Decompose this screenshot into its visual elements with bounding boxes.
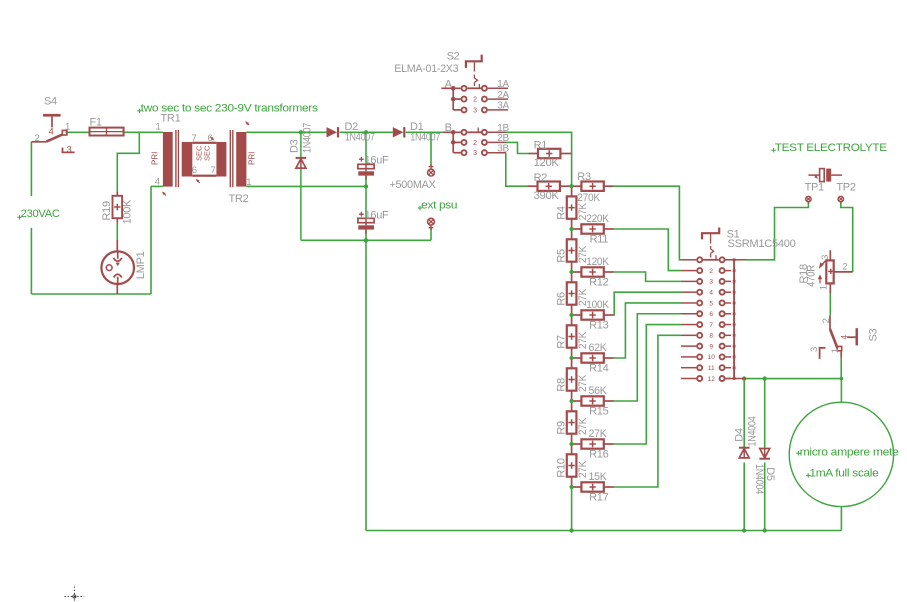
wire: branch down to R19 <box>117 132 139 191</box>
svg-text:2: 2 <box>35 133 40 144</box>
junction chain row <box>569 399 573 403</box>
S1 contact row 10 <box>697 354 702 359</box>
svg-text:R14: R14 <box>589 363 608 375</box>
junction chain bottom <box>569 528 573 532</box>
wire: R15 up to S1 row6 <box>614 314 681 401</box>
wire: psu gnd rail <box>301 239 431 241</box>
wire: riser from bottom-left rail to TR1 pin 4 <box>150 186 152 294</box>
junction D4 top <box>742 376 746 380</box>
diode D2 <box>327 127 338 137</box>
net label 230VAC <box>17 215 21 219</box>
sheet origin cross <box>65 587 85 602</box>
S1 contact row 12 <box>697 376 702 381</box>
wire: gnd drop to bottom rail <box>365 240 367 530</box>
S1 contact row 7 <box>697 322 702 327</box>
wire: cap2 bottom lead <box>365 230 367 241</box>
svg-text:12: 12 <box>708 376 716 383</box>
wire: long bottom rail <box>366 530 841 532</box>
svg-text:3: 3 <box>473 107 477 114</box>
resistor R6 27K <box>567 282 577 304</box>
svg-text:3B: 3B <box>497 143 509 154</box>
svg-text:LMP1: LMP1 <box>135 251 147 279</box>
TR2 core lines <box>229 130 231 187</box>
svg-text:SEC: SEC <box>203 145 212 161</box>
svg-text:R13: R13 <box>589 320 608 332</box>
svg-text:R10: R10 <box>556 458 568 477</box>
wire: 2B to R1 left lead <box>506 142 529 153</box>
S1 contact row 1 <box>697 257 702 262</box>
S2 contact row 2A <box>462 97 467 102</box>
svg-text:R3: R3 <box>577 171 591 183</box>
svg-text:6: 6 <box>709 311 713 318</box>
S2 group A pin line <box>441 87 461 89</box>
resistor R13 100K <box>581 310 603 319</box>
resistor R7 27K <box>567 325 577 347</box>
wire: TR2 pin1 to cap mid junction <box>246 185 366 187</box>
wire: left rail from S4 pin2 down (upper part) <box>30 142 32 196</box>
svg-text:27K: 27K <box>577 245 589 263</box>
svg-text:ext psu: ext psu <box>421 199 457 211</box>
svg-text:R4: R4 <box>556 206 568 220</box>
wire: TP2 down to R18 wiper <box>841 203 853 272</box>
S1 contact row 9 <box>697 344 702 349</box>
svg-text:220K: 220K <box>586 213 609 225</box>
svg-text:B: B <box>445 122 452 134</box>
svg-text:R6: R6 <box>556 292 568 306</box>
svg-text:D5: D5 <box>764 467 776 481</box>
wire: D3 bottom lead down to psu gnd rail <box>300 168 302 240</box>
svg-text:D3: D3 <box>288 139 300 153</box>
wire: D3 top lead <box>300 132 302 158</box>
svg-text:9: 9 <box>709 343 713 350</box>
S1 contact row 4 <box>697 290 702 295</box>
wire: LMP1 bottom pin <box>116 284 118 294</box>
svg-text:5: 5 <box>709 300 713 307</box>
svg-text:2A: 2A <box>497 90 509 101</box>
svg-text:R9: R9 <box>556 421 568 435</box>
svg-text:8: 8 <box>709 333 713 340</box>
wire: D4 branch <box>743 379 745 449</box>
resistor R9 27K <box>567 411 577 433</box>
S4 pin 3 stub <box>63 148 75 153</box>
TR1 secondary coil <box>182 142 193 177</box>
S2 contact row 3B <box>462 150 467 155</box>
lamp LMP1 <box>101 251 134 284</box>
wire: ext psu stub <box>430 228 432 241</box>
svg-text:27K: 27K <box>577 331 589 349</box>
svg-text:SSRM1C5400: SSRM1C5400 <box>728 238 796 250</box>
svg-text:1N4007: 1N4007 <box>345 132 375 144</box>
S1 contact row 8 <box>697 333 702 338</box>
S1 row12 right pin line <box>725 377 746 379</box>
svg-text:R2: R2 <box>534 172 548 184</box>
wire: S1 row1 to TP1 <box>746 203 808 260</box>
junction chain row <box>569 270 573 274</box>
svg-text:F1: F1 <box>90 117 102 129</box>
S2 B row1 bridge <box>467 131 481 133</box>
S1 row1 right pin line <box>725 259 746 261</box>
svg-text:2: 2 <box>473 97 477 104</box>
wire: R13 up to S1 row4 <box>614 292 681 315</box>
supply ext psu <box>428 218 435 225</box>
svg-text:PRI: PRI <box>248 152 257 165</box>
meter circle <box>789 402 893 506</box>
svg-text:micro ampere mete: micro ampere mete <box>800 447 899 459</box>
wire: R11 to S1 row2 <box>614 229 681 271</box>
junction gnd rail <box>364 238 368 242</box>
svg-text:S3: S3 <box>867 328 879 341</box>
resistor R11 220K <box>581 224 603 233</box>
svg-text:PRI: PRI <box>151 152 160 165</box>
wire: R19 bottom to LMP1 <box>116 223 118 240</box>
svg-text:R15: R15 <box>589 406 608 418</box>
svg-text:TP1: TP1 <box>805 181 824 193</box>
wire: cap1 top lead <box>365 132 367 164</box>
S2 contact row 2B <box>462 140 467 145</box>
svg-text:1: 1 <box>65 122 70 133</box>
resistor R5 27K <box>567 239 577 261</box>
svg-text:R7: R7 <box>556 335 568 349</box>
svg-text:1: 1 <box>246 177 251 188</box>
wire: S4 pin1 to F1 <box>66 131 90 133</box>
S2 contact row 1B <box>462 130 467 135</box>
svg-text:1N4007: 1N4007 <box>410 132 440 144</box>
trimmer R18 470R <box>829 250 831 260</box>
wire: 1B to R1/R2 junction riser <box>506 132 572 186</box>
svg-text:4: 4 <box>839 335 849 340</box>
S1 right bus <box>733 260 735 379</box>
svg-text:R8: R8 <box>556 378 568 392</box>
note text <box>137 109 141 113</box>
svg-text:4: 4 <box>49 127 54 138</box>
svg-text:4: 4 <box>155 177 160 188</box>
svg-text:7: 7 <box>192 133 197 144</box>
svg-text:27K: 27K <box>577 374 589 392</box>
sec-to-sec link bottom <box>192 175 216 177</box>
TR1 core lines <box>175 130 177 187</box>
resistor R3 <box>581 182 603 191</box>
supply +500MAX <box>428 169 435 176</box>
svg-text:62K: 62K <box>589 342 608 354</box>
test point TP2 <box>838 196 843 201</box>
S2 B bus <box>452 132 454 152</box>
svg-text:1A: 1A <box>497 79 509 90</box>
svg-text:7: 7 <box>709 322 713 329</box>
capacitor C1 16uF <box>358 164 374 168</box>
S1 contact row 2 <box>697 268 702 273</box>
svg-text:120K: 120K <box>586 256 609 268</box>
svg-text:A: A <box>445 79 453 91</box>
resistor R12 120K <box>581 267 603 276</box>
resistor R16 27K <box>581 439 603 448</box>
S1 contact row 3 <box>697 279 702 284</box>
svg-text:1mA full scale: 1mA full scale <box>809 468 878 480</box>
svg-text:27K: 27K <box>589 428 608 440</box>
junction cap1/main rail <box>364 130 368 134</box>
svg-text:230VAC: 230VAC <box>21 208 60 220</box>
transformer TR2 primary coil <box>236 132 246 187</box>
TR1 pin4 arrow <box>161 190 167 196</box>
switch S4 <box>43 114 61 117</box>
svg-text:2: 2 <box>473 140 477 147</box>
resistor R8 27K <box>567 368 577 390</box>
svg-text:2: 2 <box>842 261 847 272</box>
junction caps mid <box>364 184 368 188</box>
wire: R1 right lead to riser <box>561 153 572 155</box>
fuse F1 <box>90 128 124 136</box>
wire: main 320V rail TR2 pin4 to B <box>246 131 326 133</box>
junction D5 bottom <box>763 528 767 532</box>
connector S2 actuator bracket <box>466 55 482 68</box>
svg-text:27K: 27K <box>577 417 589 435</box>
wire: R18 pin1 to S3 pin2 <box>829 294 831 316</box>
S1 contact row 6 <box>697 311 702 316</box>
svg-text:2: 2 <box>821 318 832 323</box>
svg-text:3A: 3A <box>497 101 509 112</box>
svg-text:+500MAX: +500MAX <box>390 179 437 191</box>
wire: 3B down to R2 <box>506 153 528 187</box>
svg-text:R17: R17 <box>589 492 608 504</box>
test point TP1 <box>806 196 811 201</box>
wire: bottom-left rail <box>31 293 151 295</box>
junction D5 top <box>763 376 767 380</box>
S1 contact row 11 <box>697 365 702 370</box>
svg-text:1N4004: 1N4004 <box>753 464 765 494</box>
svg-text:16uF: 16uF <box>365 154 389 166</box>
junction meter tee <box>840 377 844 381</box>
S1 row1 bridge <box>703 259 719 261</box>
svg-text:two sec to sec 230-9V transfor: two sec to sec 230-9V transformers <box>141 102 319 114</box>
svg-text:3: 3 <box>809 347 820 352</box>
wire: +500MAX stub <box>430 132 432 167</box>
wire: chain bottom to rail <box>571 487 573 531</box>
wire: chain verticals R4-R10 leads <box>571 186 573 196</box>
svg-text:6: 6 <box>192 165 197 176</box>
diode D4 <box>739 447 750 449</box>
svg-text:15K: 15K <box>589 471 608 483</box>
svg-text:3: 3 <box>67 144 72 155</box>
S2 A row1 bridge <box>467 87 481 89</box>
junction D4 bottom <box>742 528 746 532</box>
svg-text:R11: R11 <box>590 234 609 246</box>
wire: left rail below 230VAC label <box>30 228 32 294</box>
S1 contact row 5 <box>697 300 702 305</box>
svg-text:16uF: 16uF <box>365 209 389 221</box>
S2 contact row 3A <box>462 107 467 112</box>
resistor R14 62K <box>581 353 603 362</box>
wire: cap1 bottom lead <box>365 176 367 187</box>
junction chain row <box>569 442 573 446</box>
svg-text:1: 1 <box>818 285 829 290</box>
diode D1 <box>393 127 404 137</box>
diode D3 <box>296 157 307 159</box>
wire: R17 up to S1 row8 <box>614 335 681 487</box>
svg-text:27K: 27K <box>577 460 589 478</box>
junction chain row <box>569 313 573 317</box>
svg-text:3: 3 <box>820 255 831 260</box>
junction chain row <box>569 356 573 360</box>
svg-text:390K: 390K <box>534 190 560 202</box>
sec pin6 arrow <box>209 135 215 141</box>
svg-text:3: 3 <box>709 279 713 286</box>
junction chain row <box>569 485 573 489</box>
svg-text:R16: R16 <box>589 449 608 461</box>
sec-to-sec link top <box>192 142 216 144</box>
junction D3/main rail <box>299 130 303 134</box>
svg-text:1: 1 <box>830 348 841 353</box>
svg-text:100K: 100K <box>121 199 133 224</box>
svg-text:27K: 27K <box>577 288 589 306</box>
svg-text:11: 11 <box>708 365 715 372</box>
svg-text:3: 3 <box>473 150 477 157</box>
S2 contact row 1A <box>462 86 467 91</box>
TR2 secondary coil <box>216 142 226 177</box>
electrode probe symbol <box>808 174 819 176</box>
svg-text:4: 4 <box>709 289 713 296</box>
resistor R4 27K <box>567 196 577 218</box>
wire: R16 up to S1 row7 <box>614 325 681 444</box>
TR2 pin4 arrow <box>244 120 250 126</box>
wire: D5 branch <box>764 379 766 449</box>
svg-text:TEST ELECTROLYTE: TEST ELECTROLYTE <box>775 142 887 154</box>
wire: cap2 top lead <box>365 186 367 218</box>
S2 A bus <box>452 88 454 110</box>
svg-text:TR2: TR2 <box>229 193 249 205</box>
svg-text:470R: 470R <box>805 265 817 287</box>
switch S3 <box>829 316 831 329</box>
wire: meter bottom lead <box>840 507 842 531</box>
svg-text:56K: 56K <box>589 385 608 397</box>
resistor R15 56K <box>581 396 603 405</box>
svg-text:100K: 100K <box>586 299 609 311</box>
wire: R12 to S1 row3 <box>614 272 681 281</box>
sec pin6b arrow <box>195 178 201 184</box>
wire: S1 bus bottom to meter tee <box>746 378 841 380</box>
junction R2/R3 <box>569 184 573 188</box>
svg-text:2: 2 <box>709 268 713 275</box>
wire: TR1 pin4 to riser <box>151 185 163 187</box>
rotary switch S1 actuator bracket <box>702 228 719 240</box>
resistor R10 27K <box>567 454 577 476</box>
svg-text:1: 1 <box>156 122 161 133</box>
svg-text:S2: S2 <box>447 50 460 62</box>
wire: tee down to meter top <box>840 379 842 403</box>
svg-text:D4: D4 <box>734 428 746 442</box>
resistor R17 15K <box>581 482 603 491</box>
svg-text:R5: R5 <box>556 249 568 263</box>
diode D5 <box>760 449 770 458</box>
svg-text:1N4004: 1N4004 <box>746 416 758 446</box>
svg-text:ELMA-01-2X3: ELMA-01-2X3 <box>394 63 458 75</box>
wire: R14 up to S1 row5 <box>614 303 681 358</box>
wire: F1 to TR1 pin 1 <box>124 131 163 133</box>
capacitor C2 16uF <box>358 218 374 222</box>
svg-text:S4: S4 <box>44 96 57 108</box>
wire: R3 to S1 row1 <box>614 186 681 260</box>
resistor R1 <box>538 149 560 158</box>
svg-text:R1: R1 <box>534 139 548 151</box>
svg-text:R12: R12 <box>589 277 608 289</box>
S3 pin 3 stub <box>820 348 826 359</box>
resistor R2 <box>538 182 560 191</box>
junction chain row <box>569 227 573 231</box>
S2 group B pin line <box>442 131 461 133</box>
svg-text:7: 7 <box>211 165 216 176</box>
svg-text:TP2: TP2 <box>836 181 855 193</box>
svg-text:27K: 27K <box>577 202 589 220</box>
svg-text:270K: 270K <box>577 192 600 204</box>
svg-text:R19: R19 <box>101 201 113 220</box>
svg-text:120K: 120K <box>534 157 560 169</box>
transformer TR1 primary coil <box>163 132 173 187</box>
svg-text:1N4007: 1N4007 <box>301 123 313 153</box>
resistor R19 <box>116 191 118 196</box>
svg-text:10: 10 <box>708 354 716 361</box>
